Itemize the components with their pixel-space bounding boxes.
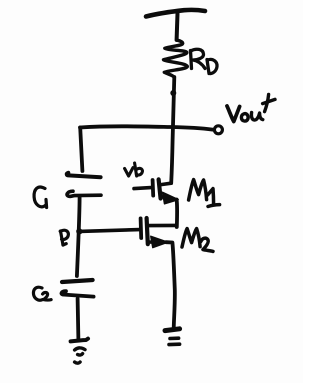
wire C1 to P to C2 <box>77 198 80 277</box>
M1 drain hook <box>161 183 171 184</box>
wire C2 lower lead <box>76 299 81 341</box>
label P <box>60 230 68 245</box>
label C1 <box>34 187 47 207</box>
label C2 <box>33 287 51 300</box>
label vb <box>125 163 143 176</box>
ground left <box>71 339 88 364</box>
wire drain vertical <box>171 77 174 183</box>
transistor M1 <box>134 179 178 203</box>
wire M2 source down <box>166 242 175 329</box>
M2 source stroke <box>148 240 158 244</box>
wire M1 source to M2 drain <box>175 200 179 228</box>
label M2 <box>182 229 213 252</box>
resistor RD <box>164 40 188 77</box>
ground right <box>165 329 180 345</box>
capacitor C1 <box>67 173 101 177</box>
capacitor C2 <box>62 280 93 282</box>
label RD <box>191 49 218 73</box>
M1 source stroke <box>161 197 170 199</box>
M2 gate bar <box>139 218 143 238</box>
transistor M2 <box>141 218 176 248</box>
wire left branch corner <box>80 128 82 172</box>
node junction dot <box>170 90 176 96</box>
M2 channel bar <box>147 218 148 244</box>
wire output horizontal <box>80 126 213 129</box>
terminal Vout <box>214 126 222 134</box>
label M1 <box>189 180 220 207</box>
M1 channel bar <box>159 179 161 198</box>
label Vout <box>227 95 275 122</box>
M2 drain lead <box>149 224 176 228</box>
wire P to M2 gate <box>80 230 140 232</box>
M1 source arrow <box>163 192 179 204</box>
wire supply stub <box>175 14 180 41</box>
supply rail <box>146 10 205 17</box>
M2 source arrow <box>151 236 168 247</box>
node P dot <box>76 228 82 234</box>
M1 gate bar <box>151 180 155 196</box>
M1 gate lead <box>134 188 151 189</box>
